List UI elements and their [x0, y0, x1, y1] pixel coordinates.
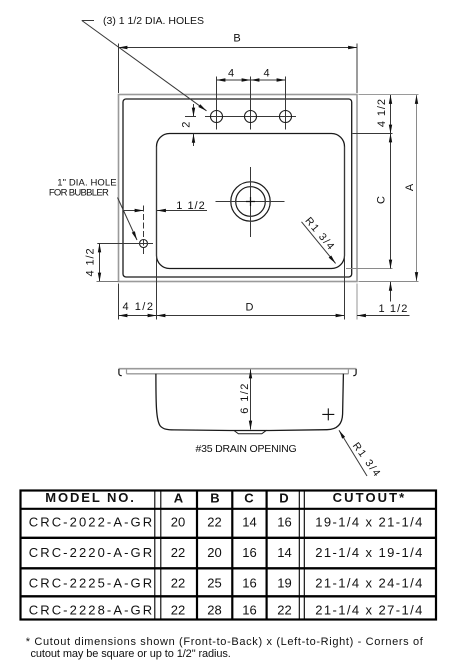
svg-text:CRC-2022-A-GR: CRC-2022-A-GR — [29, 515, 155, 530]
bottom extension line left edge — [118, 284, 120, 320]
dimension 4 1/2 left side — [99, 244, 101, 282]
svg-text:14: 14 — [277, 545, 291, 560]
rim top line — [119, 368, 357, 370]
svg-text:20: 20 — [171, 515, 185, 530]
svg-text:D: D — [246, 302, 254, 314]
drain outer circle — [231, 182, 270, 221]
table row separator 1 — [20, 537, 438, 539]
sink outer cutout edge (gray rect) — [119, 95, 358, 282]
faucet hole centerline horizontal — [205, 116, 296, 118]
leader R1 3/4 (top view corner radius) — [302, 222, 336, 264]
svg-text:4 1/2: 4 1/2 — [376, 98, 388, 127]
bottom extension line right edge — [356, 284, 358, 320]
svg-text:28: 28 — [207, 603, 221, 618]
rim left cap — [126, 369, 128, 374]
svg-text:16: 16 — [242, 603, 256, 618]
svg-text:22: 22 — [207, 515, 221, 530]
svg-text:CUTOUT*: CUTOUT* — [333, 490, 407, 505]
svg-text:4: 4 — [263, 68, 269, 80]
bubbler hole — [140, 240, 148, 248]
dimension D bottom — [157, 315, 345, 317]
svg-text:A: A — [404, 183, 416, 191]
svg-text:4: 4 — [228, 68, 234, 80]
svg-text:22: 22 — [171, 603, 185, 618]
svg-text:22: 22 — [171, 576, 185, 591]
faucet hole centerline vertical 3 — [285, 77, 287, 130]
bowl (rounded rect) — [157, 134, 345, 269]
svg-text:1 1/2: 1 1/2 — [379, 303, 409, 315]
right extension line rect bottom (gray) — [359, 281, 419, 283]
right mounting clip — [353, 369, 356, 376]
faucet hole 3 — [280, 111, 292, 123]
svg-text:22: 22 — [171, 545, 185, 560]
svg-text:B: B — [233, 33, 240, 45]
drain centerline vertical — [250, 167, 252, 237]
table line after C — [266, 490, 268, 620]
svg-text:(3) 1 1/2 DIA. HOLES: (3) 1 1/2 DIA. HOLES — [103, 15, 204, 27]
dimension 4 (hole spacing left) — [217, 79, 251, 81]
svg-text:CRC-2225-A-GR: CRC-2225-A-GR — [29, 576, 155, 591]
table double line after D — [298, 490, 300, 620]
extension line bottom left of rect — [97, 281, 119, 283]
faucet hole 2 — [245, 111, 257, 123]
svg-text:6 1/2: 6 1/2 — [239, 382, 251, 413]
dimension A far right — [416, 95, 418, 281]
dimension B — [119, 47, 358, 49]
svg-text:19-1/4 x 21-1/4: 19-1/4 x 21-1/4 — [315, 515, 423, 530]
dimension 1 1/2 right bottom (arrow up) — [390, 282, 392, 302]
svg-text:4 1/2: 4 1/2 — [123, 301, 155, 313]
drain inner circle — [236, 187, 266, 217]
dimension B extension line right — [356, 44, 358, 94]
table outer border — [21, 491, 437, 620]
svg-text:D: D — [279, 491, 288, 506]
dimension 4 (hole spacing right) — [251, 79, 286, 81]
dimension 1 1/2 (bubbler to bowl) right segment — [157, 210, 207, 212]
svg-text:2: 2 — [180, 122, 192, 128]
dimension 4 1/2 right top — [390, 95, 392, 134]
sink rim (black rect) — [123, 99, 352, 277]
svg-text:16: 16 — [242, 576, 256, 591]
table row 2 — [29, 545, 424, 560]
dimension 2 (holes to bowl edge) — [193, 104, 195, 117]
svg-text:14: 14 — [242, 515, 256, 530]
left mounting clip — [119, 369, 122, 376]
svg-text:21-1/4 x 19-1/4: 21-1/4 x 19-1/4 — [315, 545, 423, 560]
table row 1 — [29, 515, 424, 530]
dimension 4 1/2 bottom — [119, 315, 157, 317]
table double line after MODEL NO. column — [154, 490, 156, 620]
svg-text:21-1/4 x 27-1/4: 21-1/4 x 27-1/4 — [315, 603, 423, 618]
bubbler centerline horizontal — [97, 243, 153, 245]
svg-text:C: C — [244, 491, 254, 506]
faucet hole centerline vertical 1 — [216, 77, 218, 130]
svg-text:CRC-2228-A-GR: CRC-2228-A-GR — [29, 603, 155, 618]
bottom extension line bowl right — [344, 147, 346, 320]
table line after A — [196, 490, 198, 620]
svg-text:25: 25 — [207, 576, 221, 591]
dimension 6 1/2 — [250, 370, 252, 430]
svg-text:R1 3/4: R1 3/4 — [303, 215, 338, 253]
table line after B — [231, 490, 233, 620]
svg-text:22: 22 — [277, 603, 291, 618]
svg-text:MODEL NO.: MODEL NO. — [45, 490, 136, 505]
svg-text:19: 19 — [277, 576, 291, 591]
drain recess trapezoid — [234, 430, 267, 434]
table row separator 2 — [20, 567, 438, 569]
bubbler centerline vertical — [143, 206, 145, 257]
table row separator 3 — [20, 595, 438, 597]
svg-text:1 1/2: 1 1/2 — [176, 200, 205, 212]
svg-text:4 1/2: 4 1/2 — [85, 248, 97, 277]
leader R1 3/4 (section corner radius) — [339, 430, 367, 476]
right extension line top (gray) — [359, 94, 419, 96]
right extension line bowl top — [353, 133, 393, 135]
svg-text:16: 16 — [242, 545, 256, 560]
svg-text:A: A — [174, 491, 184, 506]
table row 3 — [29, 576, 424, 591]
svg-text:21-1/4 x 24-1/4: 21-1/4 x 24-1/4 — [315, 576, 423, 591]
svg-text:FOR BUBBLER: FOR BUBBLER — [49, 188, 109, 199]
bottom extension line bowl left — [156, 147, 158, 320]
svg-text:#35 DRAIN OPENING: #35 DRAIN OPENING — [195, 443, 296, 455]
svg-text:R1 3/4: R1 3/4 — [350, 440, 384, 480]
table header separator — [20, 508, 438, 510]
faucet hole centerline vertical 2 — [250, 77, 252, 130]
rim right cap — [347, 369, 349, 374]
drain center plus — [246, 197, 255, 206]
rim bottom line — [127, 373, 349, 375]
dimension 1 1/2 (bubbler to bowl) left segment — [124, 210, 144, 212]
dimension 1 1/2 bottom right — [357, 315, 410, 317]
section corner plus mark — [322, 408, 334, 420]
svg-text:CRC-2220-A-GR: CRC-2220-A-GR — [29, 545, 155, 560]
right extension line bowl bottom (gray) — [346, 268, 393, 270]
bowl section profile — [156, 374, 344, 431]
drain centerline horizontal — [216, 201, 285, 203]
svg-text:* Cutout dimensions shown (Fro: * Cutout dimensions shown (Front-to-Back… — [26, 636, 424, 648]
table header text — [45, 490, 406, 506]
svg-text:C: C — [376, 196, 388, 204]
table row 4 — [29, 603, 424, 618]
svg-text:16: 16 — [277, 515, 291, 530]
dimension C right — [390, 134, 392, 269]
dimension B extension line left — [118, 44, 120, 94]
svg-text:B: B — [210, 491, 219, 506]
svg-text:cutout may be square or up to: cutout may be square or up to 1/2" radiu… — [31, 648, 231, 660]
faucet hole 1 — [211, 111, 223, 123]
svg-text:20: 20 — [207, 545, 221, 560]
